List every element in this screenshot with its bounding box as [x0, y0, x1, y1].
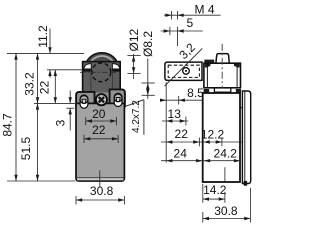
head side inner wall lines: [206, 64, 208, 88]
dimension Ø8.2 line: [147, 59, 149, 100]
svg-text:8.5: 8.5: [187, 86, 204, 100]
svg-text:5: 5: [186, 16, 193, 30]
roller bracket side view: [165, 62, 202, 80]
head side corner mark right: [234, 64, 240, 68]
body-cover step line: [240, 107, 242, 109]
switch body (front view): [76, 103, 124, 181]
cover inner line: [244, 91, 246, 183]
svg-text:33.2: 33.2: [23, 72, 37, 96]
dimension 22 vertical line: [54, 70, 56, 104]
dimension 13 line: [162, 120, 188, 122]
head chamfer highlight right: [112, 64, 119, 69]
dimension M4 line: [164, 14, 221, 16]
svg-text:30.8: 30.8: [214, 204, 238, 218]
svg-text:51.5: 51.5: [19, 136, 33, 160]
svg-text:24.2: 24.2: [214, 147, 238, 161]
head side view block: [204, 63, 241, 88]
svg-text:14.2: 14.2: [203, 183, 227, 197]
extension line top of body: [34, 102, 77, 104]
bracket mounting foot: [204, 60, 214, 64]
svg-text:13: 13: [168, 107, 182, 121]
dimension 24.2 arrows: [204, 159, 210, 162]
svg-text:24: 24: [174, 147, 188, 161]
head block (front view): [83, 62, 121, 96]
head chamfer highlight left: [84, 64, 91, 69]
roller axle hole: [183, 68, 190, 75]
dimension 24 line: [161, 160, 241, 162]
plunger axis centerline (dash-dot): [221, 44, 223, 89]
svg-text:22: 22: [175, 127, 189, 141]
svg-text:4.2x7.2: 4.2x7.2: [131, 100, 142, 133]
slot 4.2x7.2 right: [114, 93, 122, 106]
flange corner mark left: [204, 89, 210, 93]
screw in left slot: [80, 96, 88, 104]
svg-text:M 4: M 4: [195, 2, 215, 16]
dimension Ø12 line: [133, 54, 135, 79]
leader line 3.2: [165, 48, 203, 86]
body centerline: [99, 170, 101, 187]
screw in right slot: [114, 94, 122, 102]
head channel edges: [90, 71, 92, 92]
bracket hidden slot (dashed): [168, 65, 199, 77]
cover bottom cap: [244, 181, 248, 186]
dimension 11.2 line: [49, 29, 51, 54]
svg-text:11.2: 11.2: [36, 25, 50, 48]
slot 4.2x7.2 left: [80, 95, 88, 108]
cover plate side view: [242, 91, 250, 184]
extension line top of roller: [7, 52, 84, 54]
dimension 3 line: [69, 91, 71, 104]
head shoulder line: [83, 69, 92, 71]
svg-text:Ø12: Ø12: [127, 28, 141, 51]
head fixing screw (cross head): [96, 94, 107, 105]
dimension 12.2 line: [203, 141, 242, 143]
svg-text:3: 3: [54, 119, 68, 126]
dimension 22 side line: [161, 141, 202, 143]
flange corner mark right: [236, 89, 241, 93]
svg-text:30.8: 30.8: [90, 184, 114, 198]
roller centerline: [80, 71, 116, 73]
head neck plate: [87, 93, 116, 104]
cable entry centerline tick: [224, 167, 226, 182]
mounting ear left: [76, 92, 94, 110]
roller plunger dome: [85, 53, 118, 68]
plunger pin side view: [216, 54, 229, 64]
svg-text:22: 22: [92, 123, 106, 137]
body bottom strip: [77, 178, 123, 180]
svg-text:Ø8.2: Ø8.2: [141, 31, 155, 57]
mounting ear right: [110, 89, 125, 108]
svg-text:84.7: 84.7: [1, 113, 15, 137]
hidden roller circle Ø12 (dashed): [92, 63, 111, 82]
svg-text:20: 20: [92, 107, 106, 121]
body side view: [203, 93, 240, 182]
head flange tab: [204, 88, 241, 92]
leader 4.2x7.2: [125, 100, 144, 107]
dimension 14.2 line: [202, 184, 204, 203]
dimension 5 line: [161, 30, 203, 32]
dimension 84.7 line: [15, 53, 17, 181]
extension line bottom of body: [7, 180, 76, 182]
dimension 33.2 / 51.5 chain line: [37, 53, 39, 181]
dimension 8.5 line: [162, 99, 203, 101]
svg-text:22: 22: [38, 81, 52, 95]
svg-text:12.2: 12.2: [201, 127, 225, 141]
head side corner mark left: [205, 64, 211, 68]
extension line top of head: [47, 69, 83, 71]
dimension 30.8 front line: [76, 199, 124, 201]
dimension 22 horizontal line: [84, 138, 118, 140]
dimension 30.8 side line: [202, 212, 204, 223]
dimension 20 line: [86, 120, 117, 122]
reference extension line bracket left edge: [165, 82, 167, 162]
